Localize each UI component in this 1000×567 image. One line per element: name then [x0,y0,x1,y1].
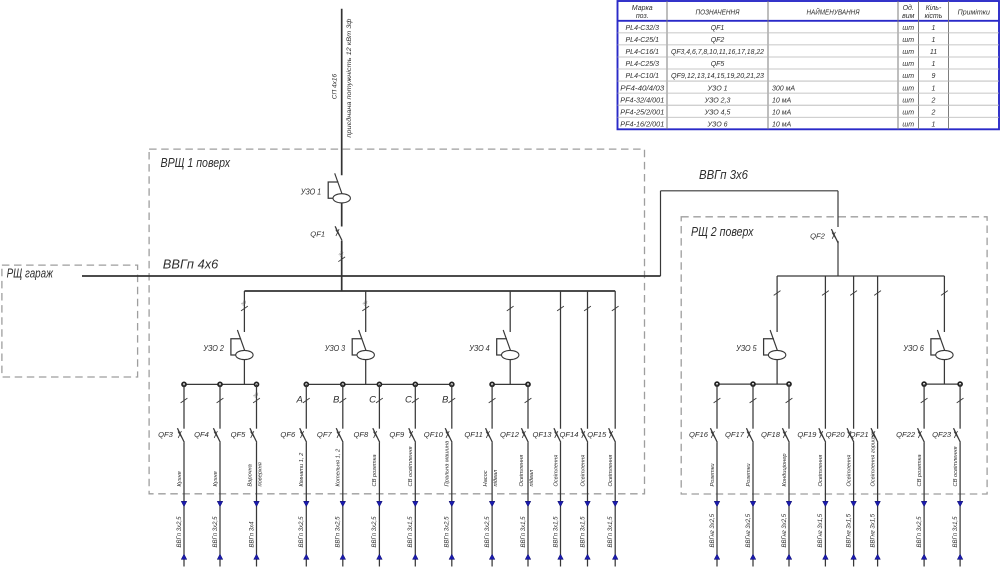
svg-text:Освітлення: Освітлення [553,455,559,487]
svg-text:QF2: QF2 [810,232,826,241]
svg-text:ВВГп 3х2,5: ВВГп 3х2,5 [299,516,305,548]
svg-text:вим: вим [902,13,915,20]
svg-text:шт: шт [902,37,914,44]
svg-text:QF7: QF7 [317,430,333,439]
svg-text:РЩ 2 поверх: РЩ 2 поверх [691,225,754,239]
svg-text:ВВГп 3х1,5: ВВГп 3х1,5 [953,516,959,548]
svg-text:PF4-16/2/001: PF4-16/2/001 [620,121,664,128]
svg-text:Марка: Марка [632,5,653,12]
svg-text:шт: шт [902,109,914,116]
svg-text:приєднана потужність 12 кВт 3ф: приєднана потужність 12 кВт 3ф [345,18,353,138]
svg-text:QF9,12,13,14,15,19,20,21,23: QF9,12,13,14,15,19,20,21,23 [671,73,764,80]
svg-text:РЩ гараж: РЩ гараж [7,267,54,281]
svg-text:ВВГп 3х6: ВВГп 3х6 [699,168,748,182]
svg-text:QF5: QF5 [231,430,247,439]
svg-text:шт: шт [902,97,914,104]
svg-text:УЗО 1: УЗО 1 [300,187,321,196]
svg-text:Освітлення: Освітлення [818,455,824,487]
svg-text:кість: кість [925,12,943,20]
svg-text:ВВГп 3х2,5: ВВГп 3х2,5 [177,516,183,548]
svg-text:Освітлення: Освітлення [846,455,852,487]
svg-text:Освітлення: Освітлення [519,455,525,487]
svg-text:10 мА: 10 мА [772,97,792,104]
svg-text:Кімнати 1, 2: Кімнати 1, 2 [299,452,305,487]
svg-text:Пральна машина: Пральна машина [445,441,451,487]
svg-text:QF23: QF23 [932,430,952,439]
svg-text:QF1: QF1 [711,25,725,32]
svg-text:PL4-C10/1: PL4-C10/1 [626,73,660,80]
svg-text:QF1: QF1 [310,229,325,238]
svg-text:Насос: Насос [483,470,489,486]
svg-text:QF17: QF17 [725,430,745,439]
svg-text:QF20: QF20 [826,430,846,439]
svg-text:PL4-C25/1: PL4-C25/1 [626,37,660,44]
svg-text:Варочна: Варочна [248,464,254,486]
svg-text:QF11: QF11 [464,430,482,439]
svg-text:підвал: підвал [529,469,535,486]
svg-text:PF4-25/2/001: PF4-25/2/001 [620,109,664,116]
svg-text:поверхня: поверхня [257,462,263,486]
svg-text:ВВГнг 3х1,5: ВВГнг 3х1,5 [870,513,876,547]
svg-text:QF12: QF12 [500,430,520,439]
svg-text:шт: шт [902,61,914,68]
svg-text:С: С [369,395,376,406]
svg-text:ВВГп 3х4: ВВГп 3х4 [249,521,255,548]
svg-text:ВВГп 3х2,5: ВВГп 3х2,5 [917,516,923,548]
svg-text:QF4: QF4 [194,430,209,439]
svg-text:1: 1 [932,121,936,128]
svg-text:QF8: QF8 [354,430,370,439]
svg-text:Котельня 1, 2: Котельня 1, 2 [336,448,342,486]
svg-text:Од.: Од. [903,4,914,12]
svg-text:В: В [333,395,340,406]
svg-text:СВ освітлення: СВ освітлення [953,446,959,486]
svg-text:QF9: QF9 [389,430,405,439]
svg-text:Примітки: Примітки [958,9,990,17]
svg-text:А: А [296,395,303,406]
svg-text:10 мА: 10 мА [772,109,792,116]
svg-text:PL4-C16/1: PL4-C16/1 [626,49,660,56]
svg-text:УЗО 5: УЗО 5 [735,344,757,353]
svg-text:УЗО 4,5: УЗО 4,5 [704,109,731,116]
svg-text:СВ розетка: СВ розетка [372,454,378,486]
svg-text:ВВГнг 3х1,5: ВВГнг 3х1,5 [846,513,852,547]
svg-text:QF13: QF13 [533,430,553,439]
svg-text:1: 1 [932,61,936,68]
svg-text:ВВГп 3х1,5: ВВГп 3х1,5 [521,516,527,548]
svg-text:Кухня: Кухня [213,471,219,486]
svg-text:поз.: поз. [636,13,649,20]
svg-text:ВВГнг 3х2,5: ВВГнг 3х2,5 [782,513,788,547]
svg-text:QF14: QF14 [560,430,579,439]
svg-text:QF6: QF6 [280,430,296,439]
svg-text:1: 1 [932,25,936,32]
svg-text:2: 2 [931,97,936,104]
svg-text:ВВГп 3х2,5: ВВГп 3х2,5 [372,516,378,548]
svg-text:PF4-40/4/03: PF4-40/4/03 [620,85,664,92]
svg-text:ВВГп 3х1,5: ВВГп 3х1,5 [608,516,614,548]
svg-text:QF2: QF2 [711,37,725,44]
svg-text:шт: шт [902,49,914,56]
svg-text:PL4-C25/3: PL4-C25/3 [626,61,660,68]
svg-text:QF21: QF21 [850,430,869,439]
svg-text:ВВГнг 3х1,5: ВВГнг 3х1,5 [818,513,824,547]
svg-text:QF22: QF22 [896,430,916,439]
svg-text:С: С [405,395,412,406]
svg-text:Освітлення: Освітлення [608,455,614,487]
svg-text:300 мА: 300 мА [772,85,795,92]
svg-text:Кіль-: Кіль- [926,4,942,12]
svg-text:СВ освітлення: СВ освітлення [408,446,414,486]
svg-text:ПОЗНАЧЕННЯ: ПОЗНАЧЕННЯ [696,8,741,17]
svg-text:ВВГп 3х2,5: ВВГп 3х2,5 [445,516,451,548]
svg-text:ВВГп 3х1,5: ВВГп 3х1,5 [580,516,586,548]
svg-text:ВВГп 4х6: ВВГп 4х6 [163,257,219,271]
svg-text:шт: шт [902,25,914,32]
svg-text:УЗО 1: УЗО 1 [707,85,728,92]
svg-text:шт: шт [902,121,914,128]
svg-text:УЗО 2: УЗО 2 [202,344,224,353]
svg-text:QF5: QF5 [711,61,725,68]
svg-text:ВВГнг 3х2,5: ВВГнг 3х2,5 [710,513,716,547]
svg-text:СП 4х16: СП 4х16 [331,74,338,100]
svg-text:УЗО 4: УЗО 4 [468,344,490,353]
svg-text:QF19: QF19 [797,430,817,439]
svg-text:10 мА: 10 мА [772,121,792,128]
svg-text:QF10: QF10 [424,430,444,439]
svg-text:2: 2 [931,109,936,116]
svg-text:Розетки: Розетки [746,463,752,487]
svg-text:Освітлення горище: Освітлення горище [870,433,876,487]
svg-text:УЗО 6: УЗО 6 [902,344,924,353]
svg-text:УЗО 2,3: УЗО 2,3 [704,97,731,104]
svg-text:ВВГп 3х2,5: ВВГп 3х2,5 [485,516,491,548]
svg-text:QF3,4,6,7,8,10,11,16,17,18,22: QF3,4,6,7,8,10,11,16,17,18,22 [671,49,764,56]
svg-text:PF4-32/4/001: PF4-32/4/001 [620,97,664,104]
svg-text:УЗО 6: УЗО 6 [707,121,728,128]
svg-text:Кухня: Кухня [177,471,183,486]
svg-text:1: 1 [932,85,936,92]
svg-text:Освітлення: Освітлення [580,455,586,487]
svg-text:ВВГп 3х1,5: ВВГп 3х1,5 [553,516,559,548]
svg-text:PL4-C32/3: PL4-C32/3 [626,25,660,32]
svg-text:НАЙМЕНУВАННЯ: НАЙМЕНУВАННЯ [807,8,861,17]
svg-text:1: 1 [932,37,936,44]
svg-text:підвал: підвал [493,469,499,486]
svg-text:ВВГп 3х2,5: ВВГп 3х2,5 [336,516,342,548]
svg-text:В: В [442,395,449,406]
svg-text:QF18: QF18 [761,430,781,439]
svg-text:шт: шт [902,85,914,92]
svg-text:9: 9 [932,73,936,80]
svg-text:ВВГп 3х2,5: ВВГп 3х2,5 [213,516,219,548]
svg-text:шт: шт [902,73,914,80]
svg-text:QF15: QF15 [587,430,607,439]
svg-text:ВРЩ 1 поверх: ВРЩ 1 поверх [161,156,231,170]
svg-text:СВ розетка: СВ розетка [917,454,923,486]
svg-text:11: 11 [930,49,937,56]
svg-text:ВВГп 3х1,5: ВВГп 3х1,5 [408,516,414,548]
svg-text:Розетки: Розетки [710,463,716,487]
svg-text:QF3: QF3 [158,430,174,439]
svg-text:QF16: QF16 [689,430,709,439]
svg-text:Кондиціонер: Кондиціонер [782,453,788,486]
svg-text:УЗО 3: УЗО 3 [324,344,346,353]
svg-text:ВВГнг 3х2,5: ВВГнг 3х2,5 [746,513,752,547]
